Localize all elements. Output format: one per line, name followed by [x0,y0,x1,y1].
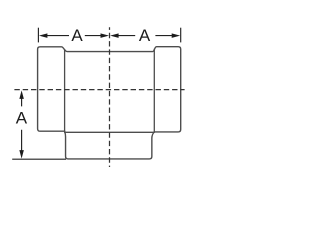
dimension line A left-vertical [21,99,23,152]
svg-text:A: A [71,26,83,45]
horizontal centerline [14,89,184,91]
tee fitting body outline [38,47,181,133]
arrowhead down [19,150,24,159]
branch cup (bottom socket) [65,132,155,159]
right extension tick [180,28,182,43]
dimension line A top-right [118,35,172,37]
arrowhead to center (left) [110,33,119,38]
right socket depth line [153,49,155,133]
arrowhead right-out [172,33,181,38]
bottom extension line [12,158,66,160]
left socket depth line [64,49,66,131]
arrowhead up [19,90,24,99]
vertical centerline [109,27,111,167]
dimension line A top-left [47,35,102,37]
svg-text:A: A [139,26,151,45]
left extension tick [37,28,39,43]
svg-text:A: A [16,109,28,128]
arrowhead to center (right) [101,33,110,38]
arrowhead left-out [39,33,48,38]
